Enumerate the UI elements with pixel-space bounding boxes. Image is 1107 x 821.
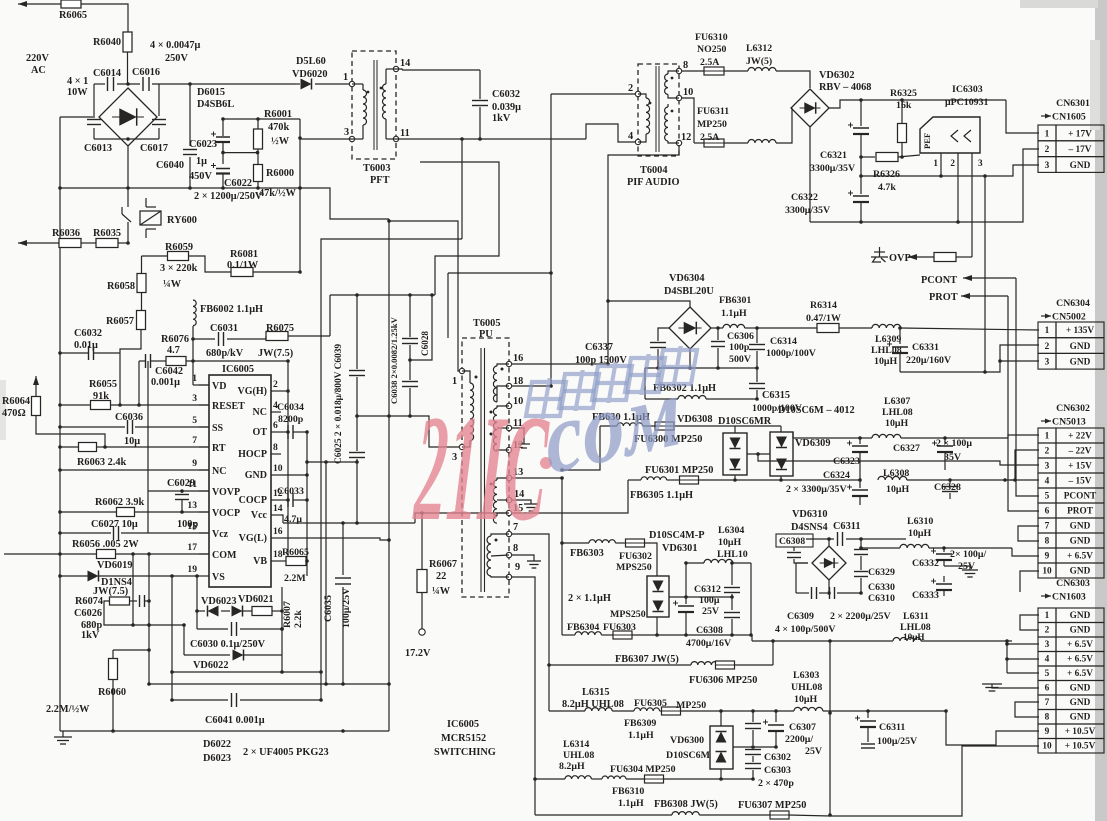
label D6022 D6023: [203, 739, 329, 764]
svg-text:VG(H): VG(H): [238, 386, 267, 397]
svg-text:C6013: C6013: [84, 143, 112, 154]
pin 5 SS: [192, 415, 223, 434]
capacitor C6027: [58, 519, 209, 540]
inductor FB6302: [645, 368, 759, 401]
capacitor C6311b: [806, 521, 906, 546]
svg-text:FB6303: FB6303: [570, 548, 604, 559]
svg-text:PIF AUDIO: PIF AUDIO: [627, 177, 680, 188]
capacitor bank top wire: [330, 293, 435, 297]
wire CN6302 gnd pins: [1018, 526, 1039, 541]
resistor R6314 0.47/1W: [806, 300, 872, 333]
svg-text:L6310: L6310: [907, 516, 933, 527]
wire pin18 to T6004: [512, 385, 551, 387]
resistor R6076: [137, 357, 290, 407]
svg-text:2.2M/½W: 2.2M/½W: [46, 704, 90, 715]
label PCONT arrow: [921, 275, 1016, 286]
svg-text:8: 8: [1045, 537, 1050, 547]
capacitor C6023: [189, 119, 230, 164]
svg-text:C6017: C6017: [140, 143, 168, 154]
svg-text:VD: VD: [212, 381, 226, 392]
capacitor C6333: [912, 576, 952, 601]
IC6303 pin 2: [950, 153, 958, 222]
svg-text:+ 17V: + 17V: [1068, 129, 1092, 139]
svg-text:CN6302: CN6302: [1056, 403, 1090, 414]
wire rowB right: [721, 778, 753, 780]
bridge rectifier VD6302 RBV-4068: [791, 70, 871, 127]
svg-text:FU6310: FU6310: [695, 32, 728, 43]
wire left lower verticals: [131, 361, 174, 700]
IC6303 pin 1: [933, 153, 941, 176]
wire pin2 loop: [281, 361, 290, 556]
svg-text:+ 10.5V: + 10.5V: [1065, 742, 1096, 752]
svg-text:220μ/160V: 220μ/160V: [906, 355, 952, 366]
ground mid: [944, 566, 978, 577]
svg-text:MP250: MP250: [676, 700, 706, 711]
connector CN6303 CN1603: [1038, 578, 1104, 753]
svg-text:10: 10: [683, 87, 693, 98]
svg-text:100μ: 100μ: [699, 595, 720, 606]
svg-text:R6081: R6081: [230, 249, 258, 260]
svg-text:C6036: C6036: [115, 412, 143, 423]
diode VD6023: [197, 596, 236, 617]
svg-text:VD6310: VD6310: [792, 509, 827, 520]
svg-text:C6314: C6314: [770, 336, 797, 347]
wire pin7 down x549: [512, 534, 551, 711]
svg-text:D10SC6M: D10SC6M: [666, 750, 711, 761]
wire R6059 to R6081: [189, 256, 232, 272]
wire ground rail: [60, 729, 389, 733]
svg-text:5: 5: [1045, 669, 1050, 679]
svg-text:9: 9: [515, 562, 520, 573]
svg-text:D6023: D6023: [203, 753, 231, 764]
svg-text:1kV: 1kV: [492, 113, 511, 124]
svg-text:R6007: R6007: [282, 601, 293, 628]
svg-text:C6310: C6310: [868, 593, 895, 604]
wire rowB out: [751, 635, 753, 641]
capacitor C6312 100u 25V: [694, 563, 740, 637]
svg-text:8: 8: [273, 442, 278, 453]
svg-text:GND: GND: [1070, 537, 1091, 547]
inductor L6309 LHL08: [871, 324, 1039, 367]
resistor R6057: [106, 292, 146, 353]
svg-text:4 × 0.0047μ: 4 × 0.0047μ: [150, 40, 200, 51]
svg-text:AC: AC: [31, 65, 46, 76]
connector CN6301 CN1605: [1038, 98, 1104, 172]
wire pin13 feed row1: [560, 426, 600, 472]
svg-text:NC: NC: [212, 466, 226, 477]
wire step y162: [420, 162, 499, 295]
capacitor C6323: [833, 438, 868, 480]
wire right riser x300: [298, 119, 302, 272]
svg-text:16k: 16k: [896, 100, 912, 111]
capacitor C6013: [84, 120, 112, 155]
svg-text:11: 11: [400, 128, 410, 139]
svg-text:R6040: R6040: [93, 37, 121, 48]
svg-text:10: 10: [1042, 742, 1052, 752]
svg-text:100μ/25V: 100μ/25V: [877, 736, 918, 747]
diode VD6020 D5L60: [292, 56, 327, 90]
wire C6023 top: [221, 117, 300, 121]
svg-text:VD6023: VD6023: [201, 596, 236, 607]
T6005 secondary 7-8-9: [487, 522, 520, 580]
capacitor C6329 C6330 C6310: [854, 539, 895, 604]
wire +22V to CN: [1008, 435, 1039, 438]
svg-text:IC6005: IC6005: [222, 364, 254, 375]
svg-text:C6027 10μ: C6027 10μ: [91, 519, 138, 530]
svg-text:0.01μ: 0.01μ: [74, 340, 98, 351]
capacitor C6042: [146, 334, 190, 388]
wire VD6304 AC in: [608, 301, 690, 307]
capacitor C6321: [810, 100, 869, 176]
wire CN6303 gnd rows78: [1015, 702, 1039, 717]
wire y462 stub: [305, 460, 359, 464]
svg-text:91k: 91k: [93, 391, 109, 402]
svg-text:T6004: T6004: [640, 165, 667, 176]
svg-text:2.5A: 2.5A: [700, 57, 719, 68]
svg-text:220V: 220V: [26, 53, 49, 64]
svg-text:3 × 220k: 3 × 220k: [160, 263, 198, 274]
svg-text:L6307: L6307: [884, 396, 910, 407]
svg-text:2: 2: [273, 379, 278, 390]
value 4x1 10W: [67, 76, 88, 98]
resistor R6075: [258, 323, 330, 359]
diode VD6019 D1NS4: [58, 560, 199, 597]
svg-text:3: 3: [1045, 462, 1050, 472]
svg-text:GND: GND: [1070, 684, 1091, 694]
svg-text:4700μ/16V: 4700μ/16V: [686, 638, 732, 649]
svg-text:D6015: D6015: [197, 87, 225, 98]
svg-text:2 × 3300μ/35V: 2 × 3300μ/35V: [786, 484, 847, 495]
inductor L6313: [748, 108, 792, 143]
svg-text:UHL08: UHL08: [563, 750, 594, 761]
wire +6.5V to CN6302 pin9: [1012, 548, 1039, 556]
inductor L6307 LHL08: [872, 396, 1008, 438]
svg-text:– 17V: – 17V: [1068, 145, 1092, 155]
capacitor C6324: [786, 470, 868, 505]
T6005 pin14 ground: [512, 500, 538, 511]
svg-text:CN1605: CN1605: [1052, 112, 1086, 123]
wire pin16 to VD6304: [512, 363, 608, 365]
svg-text:LHL10: LHL10: [717, 549, 748, 560]
inductor L6312 JW(5): [746, 43, 810, 88]
svg-text:C6033: C6033: [277, 486, 304, 497]
svg-text:– 15V: – 15V: [1068, 477, 1092, 487]
svg-text:C6042: C6042: [155, 366, 183, 377]
svg-text:C6327: C6327: [893, 443, 920, 454]
resistor R6060: [46, 648, 151, 733]
svg-text:C6321: C6321: [820, 150, 847, 161]
svg-text:L6315: L6315: [582, 687, 609, 698]
svg-text:2: 2: [1045, 447, 1050, 457]
svg-text:17: 17: [187, 542, 197, 553]
bridge rectifier D6015: [99, 87, 234, 146]
svg-text:0.47/1W: 0.47/1W: [806, 313, 841, 324]
svg-text:PEF: PEF: [922, 133, 932, 149]
svg-text:1.1μH: 1.1μH: [721, 308, 747, 319]
svg-text:9: 9: [1045, 552, 1050, 562]
svg-text:C6330: C6330: [868, 582, 895, 593]
svg-text:C6040: C6040: [156, 160, 184, 171]
svg-text:½W: ½W: [271, 136, 290, 147]
svg-text:C6041 0.001μ: C6041 0.001μ: [205, 715, 265, 726]
wire pin9 down x535: [512, 577, 537, 815]
svg-text:2.5A: 2.5A: [700, 132, 719, 143]
svg-text:1: 1: [1045, 129, 1050, 139]
wire gnd CN6302 pin10: [1020, 571, 1039, 592]
wire gnd tie: [983, 174, 987, 374]
svg-text:C6023: C6023: [189, 139, 217, 150]
svg-text:C6309: C6309: [787, 611, 814, 622]
svg-text:8.2μH UHL08: 8.2μH UHL08: [562, 699, 624, 710]
svg-text:SWITCHING: SWITCHING: [434, 747, 496, 758]
svg-text:PU: PU: [479, 329, 493, 340]
svg-text:VS: VS: [212, 572, 225, 583]
svg-text:8200p: 8200p: [278, 414, 304, 425]
svg-text:VD6020: VD6020: [292, 69, 327, 80]
fuse FU6307 MP250: [738, 800, 830, 819]
svg-text:10μ: 10μ: [124, 436, 140, 447]
svg-text:2 × UF4005 PKG23: 2 × UF4005 PKG23: [243, 747, 329, 758]
wire snubber frame: [147, 574, 389, 686]
capacitor C6327 2x100u 35V: [893, 436, 972, 470]
capacitor C6029: [148, 478, 209, 530]
fuse FU6300 MP250: [634, 422, 729, 445]
wire gnd rail 17V: [859, 165, 1039, 178]
wire row2 to caps: [735, 478, 862, 482]
inductor FB6308 JW5 bottom rail: [535, 799, 770, 815]
wire bridge square: [94, 84, 159, 141]
svg-text:C6014: C6014: [93, 68, 121, 79]
inductor FB6307 JW5: [549, 654, 718, 665]
svg-text:C6016: C6016: [132, 67, 160, 78]
svg-text:R6076: R6076: [161, 334, 189, 345]
pin 9 NC: [192, 458, 226, 477]
svg-text:GND: GND: [1070, 626, 1091, 636]
svg-text:D4SBL20U: D4SBL20U: [664, 286, 714, 297]
svg-text:7: 7: [192, 435, 197, 446]
svg-text:22: 22: [436, 571, 446, 582]
svg-text:+ 6.5V: + 6.5V: [1067, 655, 1093, 665]
diode pair VD6300 D10SC6M: [666, 709, 733, 781]
svg-text:CN6303: CN6303: [1056, 578, 1090, 589]
capacitor C6041: [170, 693, 323, 726]
svg-text:1000p/100V: 1000p/100V: [766, 348, 817, 359]
svg-text:L6309: L6309: [875, 334, 901, 345]
svg-text:C6311: C6311: [833, 521, 860, 532]
svg-text:FB6304: FB6304: [567, 622, 599, 633]
watermark chinese chars: [525, 346, 697, 419]
resistor R6062: [58, 497, 209, 517]
svg-text:CN5013: CN5013: [1052, 417, 1086, 428]
inductor FB630 1.1uH: [592, 412, 655, 426]
svg-text:10μH: 10μH: [908, 528, 931, 539]
svg-text:Vcz: Vcz: [212, 529, 229, 540]
svg-text:R6067: R6067: [429, 559, 457, 570]
svg-text:MP250: MP250: [697, 119, 727, 130]
svg-text:GND: GND: [1070, 342, 1091, 352]
resistor R6055: [58, 379, 209, 410]
svg-text:4 × 1: 4 × 1: [67, 76, 88, 87]
wire T6004 pin2 wire: [551, 93, 635, 95]
label VD6310 D4SNS4: [791, 509, 828, 533]
svg-text:GND: GND: [1070, 358, 1091, 368]
svg-text:VD6021: VD6021: [238, 594, 273, 605]
svg-text:OT: OT: [253, 427, 268, 438]
capacitor C6328: [934, 478, 961, 499]
wire bottom rail: [60, 186, 302, 190]
resistor R6001: [254, 109, 293, 165]
resistor R6067: [417, 513, 457, 635]
svg-text:680p/kV: 680p/kV: [206, 348, 244, 359]
svg-text:+ 10.5V: + 10.5V: [1065, 727, 1096, 737]
wire OVP line: [871, 247, 972, 264]
svg-text:MCR5152: MCR5152: [441, 733, 486, 744]
svg-text:SS: SS: [212, 423, 224, 434]
svg-text:0.001μ: 0.001μ: [151, 377, 180, 388]
svg-text:10μH: 10μH: [885, 418, 908, 429]
svg-text:2200μ/: 2200μ/: [785, 734, 813, 745]
ground CN6303: [982, 684, 1039, 691]
svg-text:16: 16: [273, 526, 283, 537]
wire +22V rail: [793, 432, 872, 440]
wire net A to snubber: [319, 239, 462, 700]
svg-text:3: 3: [1045, 161, 1050, 171]
wire pin10 gnd: [281, 473, 309, 477]
svg-text:15: 15: [187, 521, 197, 532]
diode VD6021: [221, 594, 273, 617]
svg-text:IC6005: IC6005: [447, 719, 479, 730]
svg-text:JW(5): JW(5): [746, 56, 772, 67]
pin 18 VB: [253, 549, 283, 567]
svg-text:2: 2: [1045, 626, 1050, 636]
svg-text:C6038 2×0.0082/1.25kV: C6038 2×0.0082/1.25kV: [389, 316, 399, 404]
svg-text:¼W: ¼W: [163, 279, 182, 290]
svg-text:+ 6.5V: + 6.5V: [1067, 669, 1093, 679]
svg-text:D10SC6M – 4012: D10SC6M – 4012: [778, 405, 855, 416]
resistor R6065b 2.2M: [281, 547, 309, 584]
svg-text:VG(L): VG(L): [239, 533, 267, 544]
AC input arrow: [18, 1, 62, 7]
svg-text:R6063 2.4k: R6063 2.4k: [77, 457, 126, 468]
svg-text:3300μ/35V: 3300μ/35V: [785, 205, 831, 216]
capacitor C6028: [408, 295, 432, 362]
svg-text:VD6308: VD6308: [677, 414, 712, 425]
svg-text:R6059: R6059: [165, 242, 193, 253]
svg-text:COM: COM: [212, 550, 237, 561]
svg-text:10: 10: [273, 463, 283, 474]
wire x330 riser: [300, 188, 389, 219]
wire R6075 to cap bank: [329, 295, 331, 336]
svg-text:FU6311: FU6311: [697, 106, 729, 117]
resistor R6065: [59, 0, 87, 21]
inductor L6303 UHL08: [753, 670, 946, 713]
pin 11 VOVP: [188, 479, 240, 498]
svg-text:5: 5: [192, 415, 197, 426]
svg-text:VD6302: VD6302: [819, 70, 854, 81]
capacitor C6337 100p1500V: [575, 328, 669, 368]
svg-text:4: 4: [628, 131, 633, 142]
svg-text:+ 15V: + 15V: [1068, 462, 1092, 472]
svg-text:3: 3: [1045, 640, 1050, 650]
resistor R6325 16k: [890, 88, 917, 159]
svg-text:FB6309: FB6309: [624, 718, 656, 729]
resistor R6327 OVP: [934, 253, 956, 262]
svg-text:VOVP: VOVP: [212, 487, 240, 498]
op-amp IC6303 uPC10931: [920, 84, 989, 153]
svg-text:100p: 100p: [729, 342, 750, 353]
svg-text:0.1/1W: 0.1/1W: [227, 260, 259, 271]
inductor FB6002: [193, 300, 263, 339]
svg-text:10μH: 10μH: [718, 537, 741, 548]
wire y641 +6.5 rail: [752, 639, 1012, 643]
svg-text:9: 9: [1045, 727, 1050, 737]
svg-text:CN5002: CN5002: [1052, 312, 1086, 323]
svg-text:2 × 100μ: 2 × 100μ: [936, 438, 972, 449]
watermark 21IC red: [410, 385, 552, 553]
svg-text:GND: GND: [1070, 611, 1091, 621]
capacitor C6314: [749, 328, 817, 368]
label PROT arrow: [929, 292, 1008, 303]
pin 8 HOCP: [238, 442, 281, 460]
svg-text:C6031: C6031: [210, 323, 238, 334]
svg-text:+ 135V: + 135V: [1066, 326, 1095, 336]
svg-text:C6307: C6307: [789, 722, 816, 733]
pin 7 RT: [192, 435, 226, 454]
svg-text:+ 6.5V: + 6.5V: [1067, 640, 1093, 650]
inductor FB6303: [562, 540, 626, 559]
svg-text:– 22V: – 22V: [1068, 447, 1092, 457]
wire -17V rail: [810, 127, 1039, 224]
capacitor C6332: [912, 546, 986, 572]
svg-text:D10SC6MR: D10SC6MR: [718, 416, 772, 427]
svg-text:RBV – 4068: RBV – 4068: [819, 82, 871, 93]
capacitor C6040: [156, 84, 212, 188]
wire -22V to CN: [1013, 450, 1039, 482]
resistor R6059: [142, 242, 198, 274]
svg-text:R6057: R6057: [106, 316, 134, 327]
wire +10.5 feeds: [830, 709, 1039, 816]
svg-text:RY600: RY600: [167, 215, 197, 226]
capacitor C6315: [749, 368, 803, 414]
svg-text:μPC10931: μPC10931: [945, 97, 989, 108]
svg-text:21IC: 21IC: [410, 385, 552, 553]
svg-text:47k/½W: 47k/½W: [259, 188, 297, 199]
svg-text:C6337: C6337: [585, 342, 613, 353]
wire +15V path: [756, 452, 1039, 465]
wire x326 riser: [324, 462, 328, 686]
resistor R6081: [227, 249, 302, 277]
resistor R6036: [52, 228, 81, 248]
svg-text:9: 9: [192, 458, 197, 469]
wire PCONT riser: [1016, 278, 1039, 496]
capacitor C6308b: [776, 534, 813, 563]
inductor FB6304: [562, 622, 613, 635]
svg-text:C6302: C6302: [764, 752, 791, 763]
wire pin10 to FU6311: [682, 98, 694, 143]
svg-text:LHL08: LHL08: [882, 407, 913, 418]
svg-text:FB6307 JW(5): FB6307 JW(5): [615, 654, 679, 665]
svg-text:19: 19: [187, 564, 197, 575]
wire -15V path: [1003, 478, 1039, 482]
svg-text:2.2M: 2.2M: [284, 573, 306, 584]
svg-text:14: 14: [273, 503, 283, 514]
svg-text:13: 13: [187, 500, 197, 511]
svg-text:R6326: R6326: [873, 169, 900, 180]
capacitor C6322: [785, 176, 869, 222]
svg-text:VD6304: VD6304: [669, 273, 704, 284]
capacitor C6033: [277, 486, 309, 525]
svg-text:14: 14: [400, 58, 410, 69]
